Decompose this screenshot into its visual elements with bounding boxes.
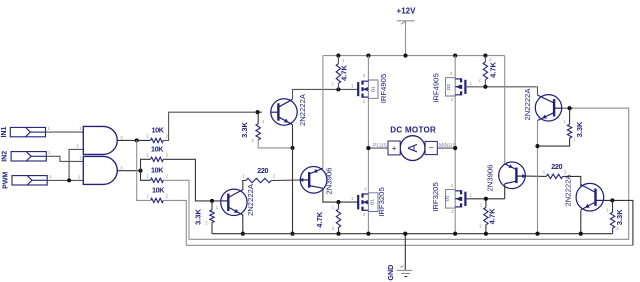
transistor Q4 2N3906 bbox=[499, 162, 526, 189]
motor minus terminal box bbox=[425, 141, 437, 154]
mosfet D4 IRF3205 right low-side bbox=[464, 192, 466, 206]
resistor R14 3.3K Q6 base-emitter bbox=[610, 212, 614, 228]
junction Q1 emitter at ground rail bbox=[290, 232, 294, 236]
svg-text:D1: D1 bbox=[370, 86, 375, 92]
junction +12V at R9 bbox=[336, 54, 340, 58]
svg-text:10K: 10K bbox=[152, 126, 165, 135]
resistor R5 220 bbox=[246, 178, 271, 182]
AND gate U2 bbox=[83, 156, 117, 184]
wire Q6 base node bbox=[604, 200, 633, 245]
wire Q5 collector to IRF4905 right gate node bbox=[537, 87, 539, 95]
svg-text:GND: GND bbox=[386, 265, 395, 281]
junction +12V at right bridge bbox=[453, 54, 457, 58]
resistor R2 10K bbox=[151, 157, 164, 161]
wire R9 bottom lead bbox=[337, 83, 339, 89]
junction R12 top node bbox=[484, 197, 488, 201]
wire IRF3205 right gate node bbox=[465, 198, 504, 200]
connector J3 PWM bbox=[12, 176, 47, 185]
wire IRF4905 right gate node bbox=[465, 86, 537, 88]
wire R6 to Q6 collector bbox=[563, 176, 581, 186]
svg-text:PWM: PWM bbox=[3, 172, 10, 189]
transistor Q6 2N2222A bbox=[576, 183, 604, 211]
junction motor right node bbox=[453, 146, 457, 150]
wire gate U1 node down to R4 bbox=[137, 140, 151, 200]
svg-text:3.3K: 3.3K bbox=[240, 121, 249, 137]
wire Q4 emitter up to +12V rail right end bbox=[504, 56, 506, 164]
svg-text:10K: 10K bbox=[151, 165, 164, 174]
mosfet D3 IRF4905 right high-side bbox=[464, 80, 466, 94]
svg-text:4.7K: 4.7K bbox=[489, 61, 498, 77]
svg-text:10K: 10K bbox=[151, 145, 164, 154]
wire Q4 collector down to IRF3205 right gate node bbox=[504, 184, 506, 199]
transistor Q2 2N2222A bbox=[221, 189, 247, 215]
wire Q2 emitter down to ground rail bbox=[242, 215, 244, 234]
mosfet D2 IRF3205 left low-side bbox=[357, 195, 359, 210]
junction Q1 emitter node bbox=[290, 146, 294, 150]
junction left bridge at ground rail bbox=[366, 232, 370, 236]
transistor Q5 2N2222A bbox=[535, 95, 561, 121]
mosfet D1 IRF4905 left high-side bbox=[357, 82, 359, 96]
wire Q1 emitter down to ground rail bbox=[292, 125, 294, 234]
wire IN1 to gate U1 input 1 bbox=[46, 131, 84, 133]
svg-text:10K: 10K bbox=[152, 185, 165, 194]
wire gate U2 node up to R2 bbox=[141, 159, 151, 170]
wire Q4 base to R6 220 bbox=[526, 175, 546, 177]
connector J1 IN1 bbox=[10, 127, 45, 136]
wire Q1 base node to R7 bbox=[257, 112, 260, 124]
junction gate U1 output node bbox=[135, 138, 139, 142]
wire R13 top lead bbox=[569, 108, 571, 124]
junction 4.7K R10 top node bbox=[336, 200, 340, 204]
junction +12V at R11 bbox=[483, 54, 487, 58]
svg-text:3.3K: 3.3K bbox=[194, 208, 203, 224]
wire IN2 to gate U2 input 1 bbox=[46, 156, 83, 161]
wire left bridge vertical bbox=[367, 56, 369, 234]
svg-text:+12V: +12V bbox=[397, 7, 417, 16]
wire R5 to Q3 base bbox=[271, 179, 300, 182]
wire R11 top lead bbox=[484, 56, 486, 62]
wire R2 to Q2 base bbox=[163, 159, 220, 201]
junction +12V at left bridge bbox=[366, 54, 370, 58]
svg-text:2N2222A: 2N2222A bbox=[246, 183, 255, 216]
svg-text:IN1: IN1 bbox=[1, 127, 8, 138]
wire R3 to upper feedback line bbox=[163, 108, 628, 239]
wire R14 top lead bbox=[611, 200, 613, 212]
wire PWM to gate U2 input 2 bbox=[47, 179, 83, 181]
wire R10 bottom lead bbox=[338, 227, 340, 233]
junction PWM node bbox=[67, 178, 71, 182]
wire +12V rail bbox=[323, 55, 505, 57]
transistor Q3 2N3906 bbox=[300, 167, 327, 194]
+12V power symbol bbox=[397, 20, 415, 22]
junction Q5 emitter 3.3K node bbox=[535, 144, 539, 148]
ground symbol GND bbox=[397, 269, 412, 271]
junction R12 at ground rail bbox=[484, 232, 488, 236]
svg-text:3.3K: 3.3K bbox=[575, 121, 584, 137]
wire PWM branch to gate U1 input 2 bbox=[69, 149, 83, 180]
svg-text:D1: D1 bbox=[369, 199, 374, 205]
wire Q1 collector to IRF4905 left gate node bbox=[293, 89, 358, 99]
svg-text:IN2: IN2 bbox=[2, 151, 9, 162]
svg-text:A: A bbox=[405, 143, 420, 152]
svg-text:IRF3205: IRF3205 bbox=[377, 187, 386, 217]
wire Q5 base node bbox=[562, 107, 573, 109]
junction +12V at stem bbox=[403, 54, 407, 58]
svg-text:D2: D2 bbox=[446, 84, 451, 90]
junction Q6 emitter at ground rail bbox=[579, 232, 583, 236]
wire R9 top lead bbox=[337, 56, 339, 64]
resistor R13 3.3K Q5 base-emitter bbox=[567, 124, 571, 138]
junction Q1 base node bbox=[256, 110, 260, 114]
svg-text:4.7K: 4.7K bbox=[488, 208, 497, 224]
resistor R4 10K bbox=[151, 198, 164, 202]
resistor R9 4.7K bbox=[336, 64, 340, 84]
svg-text:−: − bbox=[429, 143, 434, 153]
wire GND stem bbox=[404, 234, 406, 270]
wire R12 bottom lead bbox=[485, 225, 487, 234]
resistor R6 220 bbox=[546, 174, 562, 178]
wire Q3 collector down to IRF3205 left gate node bbox=[323, 188, 358, 202]
wire Q2 collector up to R5 220 bbox=[243, 181, 246, 191]
wire R11 bottom lead bbox=[484, 80, 486, 87]
wire R14 bottom lead to ground rail end bbox=[612, 228, 614, 234]
wire Q2 base node to R8 bbox=[211, 201, 213, 210]
wire gate U2 output bbox=[116, 170, 140, 172]
svg-text:DC MOTOR: DC MOTOR bbox=[390, 126, 436, 135]
svg-text:IRF4905: IRF4905 bbox=[379, 74, 388, 104]
wire R1 to Q1 base bbox=[163, 112, 262, 140]
junction 4.7K R9 bottom node bbox=[336, 87, 340, 91]
ground rail bbox=[212, 233, 613, 235]
resistor R7 3.3K Q1 base-emitter bbox=[256, 124, 260, 140]
resistor R10 4.7K bbox=[336, 209, 340, 227]
wire Q3 emitter up to +12V rail left end bbox=[322, 56, 324, 169]
svg-text:2N3906: 2N3906 bbox=[325, 168, 334, 195]
svg-text:2N3906: 2N3906 bbox=[485, 165, 494, 192]
resistor R8 3.3K Q2 base-emitter bbox=[210, 210, 214, 223]
junction Q2 emitter at ground rail bbox=[241, 232, 245, 236]
dc motor M1 bbox=[400, 136, 425, 161]
wire +12V stem bbox=[405, 21, 407, 56]
svg-text:220: 220 bbox=[551, 162, 562, 171]
connector J2 IN2 bbox=[11, 152, 46, 161]
junction R11 bottom node bbox=[483, 85, 487, 89]
svg-text:IRF4905: IRF4905 bbox=[431, 73, 440, 103]
junction motor left node bbox=[366, 146, 370, 150]
junction Q2 base node bbox=[210, 199, 214, 203]
resistor R12 4.7K bbox=[484, 207, 488, 225]
wire gate U1 output bbox=[116, 139, 150, 141]
AND gate U1 bbox=[83, 126, 117, 154]
wire motor minus to right bridge bbox=[437, 147, 455, 149]
resistor R11 4.7K bbox=[483, 62, 487, 80]
svg-text:2N2222A: 2N2222A bbox=[298, 93, 307, 126]
wire R8 bottom to ground rail left end bbox=[211, 223, 213, 234]
wire right bridge vertical bbox=[454, 56, 456, 234]
junction right bridge at ground rail bbox=[453, 232, 457, 236]
resistor R1 10K bbox=[151, 138, 164, 142]
svg-text:4.7K: 4.7K bbox=[315, 211, 324, 227]
svg-text:2N2222A: 2N2222A bbox=[564, 174, 573, 207]
svg-text:IRF3205: IRF3205 bbox=[431, 182, 440, 212]
junction Q6 base node bbox=[610, 198, 614, 202]
junction ground rail at GND stem bbox=[403, 232, 407, 236]
wire R13 bottom to Q5 emitter bbox=[538, 138, 570, 146]
wire R4 to lower feedback line bbox=[163, 200, 633, 245]
svg-text:4.7K: 4.7K bbox=[340, 64, 349, 80]
wire Q5 emitter down to ground rail bbox=[537, 120, 539, 233]
junction gate U2 output node bbox=[138, 169, 142, 173]
svg-text:3.3K: 3.3K bbox=[615, 209, 624, 225]
svg-text:D2: D2 bbox=[444, 195, 449, 201]
wire Q6 emitter down to ground rail bbox=[580, 210, 582, 234]
svg-text:+: + bbox=[392, 143, 397, 153]
junction Q5 emitter at ground rail bbox=[535, 232, 539, 236]
wire R7 bottom to Q1 emitter bbox=[258, 140, 292, 148]
junction R10 at ground rail bbox=[336, 232, 340, 236]
svg-text:2N2222A: 2N2222A bbox=[523, 88, 532, 121]
svg-text:220: 220 bbox=[257, 166, 268, 175]
transistor Q1 2N2222A bbox=[271, 99, 297, 125]
resistor R3 10K bbox=[151, 178, 164, 182]
wire gate U2 node down to R3 bbox=[141, 171, 151, 181]
junction Q5 base node bbox=[568, 106, 572, 110]
motor plus terminal box bbox=[388, 141, 400, 155]
wire R10 top lead bbox=[338, 202, 340, 209]
wire motor plus to left bridge bbox=[368, 147, 388, 149]
wire R12 top lead bbox=[485, 199, 487, 208]
